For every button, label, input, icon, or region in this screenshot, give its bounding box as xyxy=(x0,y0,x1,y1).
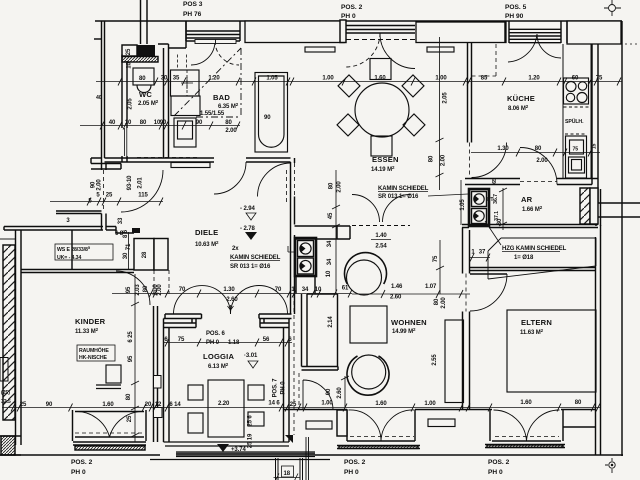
window: BAD top window frame xyxy=(186,21,240,41)
door: WOHNEN-LOGGIA door dashes xyxy=(298,373,300,410)
svg-text:1.66 M2: 1.66 M2 xyxy=(522,205,543,213)
dim line: vertical AR x503 xyxy=(499,188,507,230)
svg-text:10.63 M2: 10.63 M2 xyxy=(195,240,219,248)
furniture: WOHNEN armchair north xyxy=(345,253,387,284)
wall: bottom boundary east xyxy=(315,454,623,456)
fixture: KUECHE sink unit xyxy=(566,136,587,178)
svg-text:56: 56 xyxy=(263,337,270,343)
fixture: KUECHE stove xyxy=(563,44,591,179)
svg-text:70: 70 xyxy=(275,287,282,293)
svg-text:SR 013 1= Ø16: SR 013 1= Ø16 xyxy=(378,194,419,200)
svg-text:6.35 M2: 6.35 M2 xyxy=(218,102,239,110)
svg-text:DIELE: DIELE xyxy=(195,228,218,237)
wall: WOHNEN/ELTERN wall lower xyxy=(463,312,470,410)
window: ELTERN window xyxy=(490,410,563,442)
wall: LOGGIA corner jog west xyxy=(164,319,197,328)
svg-text:14.99 M2: 14.99 M2 xyxy=(392,327,416,335)
dim line: loggia row y342 xyxy=(163,342,292,344)
svg-text:34: 34 xyxy=(327,258,333,265)
svg-text:WOHNEN: WOHNEN xyxy=(391,318,427,327)
svg-text:1= Ø18: 1= Ø18 xyxy=(514,255,534,261)
wall: top exterior block between BAD and ESSEN windows xyxy=(245,21,344,43)
fixture: radiator ESSEN east xyxy=(427,47,454,52)
svg-text:40: 40 xyxy=(109,120,116,126)
door: KINDER door dashes xyxy=(154,270,169,294)
svg-text:·3.01: ·3.01 xyxy=(244,353,258,359)
wall: WOHNEN/ELTERN wall upper xyxy=(463,228,470,274)
dim line: entry row y201.5 xyxy=(50,201,163,203)
dim line: middle row y293.5 xyxy=(112,293,352,295)
wall: stairwell wall xyxy=(4,227,103,231)
door: ESSEN-WOHNEN opening dashed line xyxy=(352,225,410,227)
leader: hzg kamin xyxy=(485,221,501,245)
door: ELTERN door arc xyxy=(470,274,507,311)
furniture: ESSEN chair NW diamond xyxy=(338,75,360,97)
wall: pier below loggia east xyxy=(306,437,309,480)
svg-text:34: 34 xyxy=(302,287,309,293)
wall: black pier left of KINDER door xyxy=(132,228,140,233)
svg-text:KÜCHE: KÜCHE xyxy=(507,94,535,103)
svg-text:61: 61 xyxy=(342,286,349,292)
wire: loggia leaves meeting tick xyxy=(228,305,234,314)
wall: stair corridor west wall xyxy=(102,21,107,170)
svg-text:36.7: 36.7 xyxy=(493,194,499,204)
svg-text:PH 76: PH 76 xyxy=(183,11,202,18)
svg-text:PH 0: PH 0 xyxy=(341,13,356,20)
dim line: kuechen row y152.5 xyxy=(471,152,600,154)
svg-text:2.05 M2: 2.05 M2 xyxy=(138,99,159,107)
svg-text:37: 37 xyxy=(479,250,486,256)
wall: LOGGIA north wall west pier xyxy=(164,314,202,319)
wall: entry north wall with jog xyxy=(91,158,121,169)
svg-text:2.55: 2.55 xyxy=(432,354,438,366)
svg-text:32.5: 32.5 xyxy=(1,399,11,405)
svg-text:80: 80 xyxy=(225,120,232,126)
svg-text:1.30: 1.30 xyxy=(223,287,235,293)
svg-text:10: 10 xyxy=(326,270,332,277)
svg-text:PH 0: PH 0 xyxy=(206,340,220,346)
wall: KINDER north wall xyxy=(21,270,134,273)
svg-text:2.00: 2.00 xyxy=(536,158,548,164)
wire: dashed line left of DIELE wall xyxy=(286,170,288,202)
svg-text:POS. 7: POS. 7 xyxy=(273,378,279,398)
wall: KINDER east wall xyxy=(154,306,158,442)
wall: AR south wall xyxy=(462,225,598,228)
svg-text:1.60: 1.60 xyxy=(520,400,532,406)
wall: WOHNEN west wall xyxy=(302,294,308,367)
wall: AR east white pier xyxy=(590,188,598,224)
svg-text:KINDER: KINDER xyxy=(75,317,106,326)
svg-text:40: 40 xyxy=(96,95,102,101)
wall: top exterior boundary xyxy=(95,20,622,22)
svg-text:11.33 M2: 11.33 M2 xyxy=(75,327,99,335)
wall: strip wall east of LOGGIA xyxy=(293,294,295,435)
door: DIELE-ESSEN door dashes xyxy=(294,163,296,197)
fixture: BAD shower dashed xyxy=(178,55,187,71)
svg-text:POS. 5: POS. 5 xyxy=(505,4,527,11)
svg-text:2.20: 2.20 xyxy=(218,401,230,407)
wall: KUECHE east wall xyxy=(592,44,598,203)
door: KUECHE balcony leaf left xyxy=(508,34,537,62)
svg-text:ELTERN: ELTERN xyxy=(521,318,552,327)
svg-text:2.14: 2.14 xyxy=(328,316,334,328)
svg-text:PH 0: PH 0 xyxy=(344,469,359,476)
svg-text:80: 80 xyxy=(434,298,440,305)
svg-text:10: 10 xyxy=(127,62,133,69)
door: AR door dashes xyxy=(520,181,557,183)
svg-text:90: 90 xyxy=(160,120,167,126)
wall: room face line above bottom windows xyxy=(283,409,596,411)
svg-text:POS. 2: POS. 2 xyxy=(341,4,363,11)
svg-text:80: 80 xyxy=(126,393,132,400)
svg-text:1.05: 1.05 xyxy=(460,199,466,211)
wall: LOGGIA west parapet xyxy=(164,319,170,443)
dim line: top row y78 xyxy=(96,81,622,83)
svg-text:+3.74: +3.74 xyxy=(231,447,246,453)
fixture: BAD washbasin unit lower xyxy=(171,96,200,116)
fixture: KINDER HK niche radiator xyxy=(106,365,121,383)
svg-text:75: 75 xyxy=(433,255,439,262)
svg-text:80: 80 xyxy=(429,155,435,162)
svg-text:LOGGIA: LOGGIA xyxy=(203,352,234,361)
door: KINDER window leaves xyxy=(75,411,144,437)
svg-text:30: 30 xyxy=(123,252,129,259)
door: KINDER door arc xyxy=(116,271,150,305)
wall: LOGGIA east parapet xyxy=(284,319,290,443)
svg-text:35: 35 xyxy=(173,76,180,82)
svg-text:2.54: 2.54 xyxy=(375,244,387,250)
svg-text:2x: 2x xyxy=(232,246,239,252)
svg-text:1.60: 1.60 xyxy=(102,402,114,408)
wall: LOGGIA north wall east pier xyxy=(259,314,292,319)
svg-text:6 25: 6 25 xyxy=(128,331,134,343)
furniture: LOGGIA chair NE xyxy=(248,385,264,400)
svg-text:85: 85 xyxy=(481,76,488,82)
wall: top-right exterior corner block xyxy=(567,21,621,44)
fixture: WC bowl xyxy=(137,85,151,93)
svg-text:2.05: 2.05 xyxy=(128,98,134,110)
wall: entry west wall lower xyxy=(103,170,105,211)
wall: black corner mark loggia east xyxy=(285,435,293,443)
svg-text:93-10: 93-10 xyxy=(127,175,133,191)
svg-text:14.19 M2: 14.19 M2 xyxy=(371,165,395,173)
svg-text:75: 75 xyxy=(596,76,603,82)
furniture: ESSEN round table xyxy=(355,83,409,137)
chimney: KAMIN block KUECHE corner xyxy=(469,189,489,226)
wall: closet divider in upper KINDER zone xyxy=(71,230,73,270)
furniture: LOGGIA table xyxy=(208,380,244,437)
dim line: wohnen row y294 continuation xyxy=(352,293,470,295)
svg-text:PH 90: PH 90 xyxy=(505,13,524,20)
window: WOHNEN window xyxy=(347,410,415,442)
fixture: KUECHE counter dashed xyxy=(472,44,497,76)
svg-text:SR 013 1= Ø16: SR 013 1= Ø16 xyxy=(230,264,271,270)
dim line: vertical x331 essen/wohnen xyxy=(332,170,340,293)
svg-text:75: 75 xyxy=(573,147,579,153)
svg-text:HK-NISCHE: HK-NISCHE xyxy=(79,355,108,361)
svg-text:BAD: BAD xyxy=(213,93,230,102)
furniture: ESSEN chair north xyxy=(370,59,391,80)
svg-text:8.06 M2: 8.06 M2 xyxy=(508,104,529,112)
svg-text:20: 20 xyxy=(145,402,152,408)
window: ELTERN window dashes xyxy=(495,436,559,438)
svg-text:80: 80 xyxy=(575,400,582,406)
svg-text:1.07: 1.07 xyxy=(425,284,437,290)
svg-text:45: 45 xyxy=(328,212,334,219)
dim line: vertical left of KINDER x135 xyxy=(134,274,136,442)
svg-text:1.00: 1.00 xyxy=(321,401,333,407)
dim line: vertical ESSEN x448 xyxy=(436,37,444,190)
door: ESSEN balcony leaf left dashed xyxy=(346,33,380,67)
wire: hidden edge dashed in entry xyxy=(137,157,200,159)
svg-text:25: 25 xyxy=(106,193,113,199)
window: KUECHE balcony door frame xyxy=(505,21,567,43)
wall: right exterior boundary xyxy=(621,21,623,456)
svg-text:18: 18 xyxy=(284,471,291,477)
label: 18 box xyxy=(282,466,294,477)
door: WC door leaf closed xyxy=(125,128,127,156)
svg-text:UK= - 4.34: UK= - 4.34 xyxy=(57,255,81,261)
svg-text:90: 90 xyxy=(46,402,53,408)
svg-text:25: 25 xyxy=(126,48,132,55)
fixture: radiator WOHNEN west xyxy=(306,421,332,429)
svg-text:95: 95 xyxy=(128,355,134,362)
svg-text:WS E 28/33/85: WS E 28/33/85 xyxy=(57,245,91,253)
svg-text:SPÜLH.: SPÜLH. xyxy=(565,118,584,125)
svg-text:(25): (25) xyxy=(1,390,10,396)
svg-text:15: 15 xyxy=(592,144,598,150)
svg-text:2.60: 2.60 xyxy=(337,387,343,399)
wall: DIELE/ESSEN wall xyxy=(291,158,295,314)
furniture: ESSEN chair SE diamond xyxy=(403,114,425,136)
wire: boundary line extension right xyxy=(596,189,640,226)
svg-text:POS. 2: POS. 2 xyxy=(344,459,366,466)
window: KINDER window dashed sill xyxy=(75,432,144,434)
svg-text:10: 10 xyxy=(125,120,132,126)
wall: WOHNEN south-west jog wall xyxy=(302,367,339,371)
dim line: vertical right of wohnen door x345 xyxy=(341,376,349,407)
door: ELTERN window leaves xyxy=(494,410,560,441)
svg-text:1.30: 1.30 xyxy=(497,146,509,152)
door: DIELE-LOGGIA double leaves half circles xyxy=(174,286,288,315)
door: ESSEN-WOHNEN double leaves xyxy=(352,195,410,223)
leader: kamin schiedel diele xyxy=(288,246,296,252)
fixture: BAD washbasin unit upper xyxy=(171,70,200,96)
svg-text:WC: WC xyxy=(139,90,152,99)
svg-text:1.00: 1.00 xyxy=(322,76,334,82)
dim line: WC/BAD row y125.5 xyxy=(80,125,240,127)
svg-text:POS 3: POS 3 xyxy=(183,1,203,8)
leader: kamin schiedel essen xyxy=(428,194,468,196)
svg-text:1.05: 1.05 xyxy=(266,76,278,82)
svg-text:71: 71 xyxy=(126,243,132,250)
svg-text:10: 10 xyxy=(315,287,322,293)
svg-text:80: 80 xyxy=(535,146,542,152)
svg-text:30: 30 xyxy=(497,218,503,225)
furniture: LOGGIA chair SE xyxy=(248,412,264,426)
svg-text:1.00: 1.00 xyxy=(424,401,436,407)
chimney stack above WC xyxy=(141,0,148,44)
wall: entry pier to niche xyxy=(102,214,135,234)
svg-text:1.00: 1.00 xyxy=(435,76,447,82)
svg-text:6 14: 6 14 xyxy=(169,402,181,408)
svg-text:90: 90 xyxy=(264,115,271,121)
svg-text:- 2.94: - 2.94 xyxy=(240,206,256,212)
wall: ELTERN north wall xyxy=(470,268,595,271)
svg-text:25: 25 xyxy=(127,415,133,422)
svg-text:115: 115 xyxy=(138,193,148,199)
svg-text:80: 80 xyxy=(329,182,335,189)
svg-text:ESSEN: ESSEN xyxy=(372,155,399,164)
svg-text:POS. 6: POS. 6 xyxy=(206,331,226,337)
svg-text:KAMIN SCHIEDEL: KAMIN SCHIEDEL xyxy=(230,255,281,261)
door: ESSEN-KUECHE door arc xyxy=(472,143,507,178)
svg-text:2.03: 2.03 xyxy=(135,284,141,296)
wall: WC top black core xyxy=(137,45,155,56)
wall: WC east / BAD west wall xyxy=(164,44,169,158)
window: WOHNEN window dashes xyxy=(350,436,414,438)
svg-text:25: 25 xyxy=(290,402,297,408)
window: WOHNEN window sill xyxy=(337,446,420,449)
svg-text:2.00: 2.00 xyxy=(225,128,237,134)
svg-text:1.60: 1.60 xyxy=(375,401,387,407)
wall: ELTERN east wall xyxy=(596,225,601,455)
svg-text:2.01: 2.01 xyxy=(138,177,144,189)
door: AR door arc xyxy=(520,148,557,185)
svg-text:30: 30 xyxy=(161,76,168,82)
svg-text:PH 0: PH 0 xyxy=(488,469,503,476)
svg-text:2.00: 2.00 xyxy=(337,181,343,193)
svg-text:PH 0: PH 0 xyxy=(71,469,86,476)
svg-text:80: 80 xyxy=(143,285,149,292)
door: ELTERN door leaf xyxy=(470,273,507,275)
door: apartment entry door arc xyxy=(121,170,163,212)
door: DIELE-ESSEN door arc xyxy=(258,163,292,197)
furniture: WOHNEN armchair south xyxy=(347,356,389,395)
label: RAUMHOEHE box xyxy=(77,345,115,361)
wall: LOGGIA south slab xyxy=(150,442,330,460)
wall: WC west wall xyxy=(122,55,127,163)
svg-text:25: 25 xyxy=(20,402,27,408)
symbol: survey circle bottom right xyxy=(605,458,615,473)
svg-text:28: 28 xyxy=(142,251,148,258)
svg-text:80: 80 xyxy=(139,76,146,82)
dim line: vertical kitchen x461 xyxy=(460,180,462,225)
svg-text:14 6: 14 6 xyxy=(268,401,280,407)
dim line: bottom row y407.5 xyxy=(2,407,600,409)
svg-text:33: 33 xyxy=(118,217,124,224)
fixture: radiator WOHNEN east xyxy=(428,419,455,427)
furniture: WOHNEN west closet xyxy=(307,294,338,367)
wall: bottom-left corner block xyxy=(1,436,15,455)
svg-text:1.20: 1.20 xyxy=(528,76,540,82)
wall: WC hatched strip xyxy=(122,57,158,63)
door: ELTERN door dashes xyxy=(465,274,467,312)
furniture: LOGGIA chair SW xyxy=(188,413,203,433)
furniture: ESSEN chair NE diamond xyxy=(402,75,424,97)
wall: pier west of WOHNEN window xyxy=(337,410,347,436)
svg-text:POS. 2: POS. 2 xyxy=(488,459,510,466)
wire: dashed below loggia xyxy=(276,458,303,480)
wall: left exterior hatched wall xyxy=(3,245,15,420)
wall: AR east hatched pier xyxy=(580,188,590,224)
wall: step east of ELTERN window xyxy=(563,426,596,428)
wall: KUECHE south wall xyxy=(465,179,598,185)
svg-text:AR: AR xyxy=(521,195,533,204)
door: BAD door arc xyxy=(214,162,246,194)
dim line: vertical x128 upper KINDER xyxy=(128,232,130,270)
wall: left exterior inner lines xyxy=(16,230,22,445)
furniture: ESSEN chair SW diamond xyxy=(337,114,359,136)
fixture: WC cistern xyxy=(133,68,154,85)
wall: chimney column walls DIELE xyxy=(296,276,315,294)
wall: top exterior block between ESSEN and KUECHE windows xyxy=(416,22,506,43)
svg-text:2.00: 2.00 xyxy=(157,284,163,296)
door: ESSEN balcony leaf right xyxy=(380,34,415,69)
svg-text:2.00: 2.00 xyxy=(441,154,447,166)
wall: bottom boundary west xyxy=(0,454,160,456)
furniture: WOHNEN wardrobe xyxy=(445,320,464,403)
svg-text:1.55/1.55: 1.55/1.55 xyxy=(200,111,225,117)
wall: BAD north inner face xyxy=(158,21,186,48)
svg-text:65: 65 xyxy=(492,178,498,184)
fixture: radiator DIELE under BAD wall xyxy=(171,163,210,168)
fixture: bathtub xyxy=(255,73,288,153)
svg-text:KAMIN SCHIEDEL: KAMIN SCHIEDEL xyxy=(378,186,429,192)
svg-text:25 6: 25 6 xyxy=(248,415,254,427)
svg-text:95: 95 xyxy=(126,286,132,293)
svg-text:1.40: 1.40 xyxy=(375,233,387,239)
chimney: HZG KAMIN slanted duct xyxy=(488,238,596,279)
svg-text:2.00: 2.00 xyxy=(441,297,447,309)
svg-text:1.18: 1.18 xyxy=(228,340,240,346)
svg-text:2.00: 2.00 xyxy=(97,179,103,191)
furniture: ELTERN bed xyxy=(507,310,596,392)
svg-text:HZG KAMIN SCHIEDEL: HZG KAMIN SCHIEDEL xyxy=(502,246,567,252)
svg-text:6.13 M2: 6.13 M2 xyxy=(208,362,229,370)
door: BAD window leaves xyxy=(191,41,215,65)
wall: LOGGIA corner jog east xyxy=(260,319,289,328)
dim line: HZG small xyxy=(470,254,490,262)
svg-text:1.20: 1.20 xyxy=(208,76,220,82)
svg-text:RAUMHÖHE: RAUMHÖHE xyxy=(79,347,109,354)
svg-text:12: 12 xyxy=(155,402,162,408)
label: WS E box xyxy=(55,244,113,260)
dim line: vertical WOHNEN x440 xyxy=(436,240,444,294)
svg-text:2.60: 2.60 xyxy=(390,295,402,301)
window: ESSEN balcony door frame xyxy=(346,26,415,34)
door: KUECHE balcony leaf right xyxy=(537,34,561,58)
svg-text:11.63 M2: 11.63 M2 xyxy=(520,328,544,336)
wall: pier jogs on KINDER east wall xyxy=(154,376,162,389)
wall: south wall of WC and BAD xyxy=(105,158,291,162)
wall: ESSEN/WOHNEN wall band xyxy=(295,226,351,239)
svg-text:60: 60 xyxy=(572,76,579,82)
door: ESSEN-KUECHE door dashes xyxy=(469,143,471,178)
furniture: ESSEN chair south xyxy=(371,136,392,156)
wall: small niche box on left facade xyxy=(0,358,8,382)
fixture: radiator ESSEN west xyxy=(305,47,335,52)
wire: tick at left wall top xyxy=(0,238,15,240)
svg-text:PH 0: PH 0 xyxy=(281,381,287,395)
door: WOHNEN-LOGGIA door arc xyxy=(303,380,333,410)
svg-text:34: 34 xyxy=(327,240,333,247)
wall: ESSEN/KUECHE wall xyxy=(468,43,472,143)
furniture: wardrobe niche cells DIELE/KINDER xyxy=(134,239,154,271)
wall: ESSEN window left jamb xyxy=(340,20,346,43)
chimney: KAMIN block DIELE xyxy=(295,238,316,276)
diagonal: BAD sloped ceiling line xyxy=(174,48,241,117)
